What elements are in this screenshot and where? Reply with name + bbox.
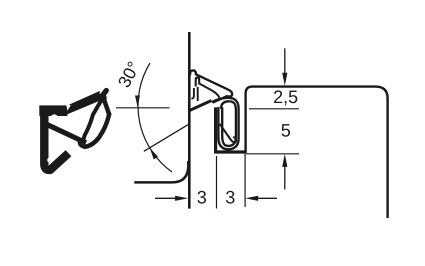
notch in top block of S1 bbox=[66, 105, 71, 111]
channel line and curl of S2 bbox=[191, 88, 194, 98]
label 5 bbox=[281, 124, 290, 137]
dimension arrow down (2.5) bbox=[282, 48, 287, 86]
dimension arrow left (3 right) bbox=[245, 196, 277, 201]
bulb outer wall of S1 bbox=[85, 114, 110, 147]
bulb hook curl of S1 bbox=[79, 140, 84, 147]
tongue of S2 bbox=[220, 124, 236, 142]
arc arrowhead upper bbox=[135, 96, 140, 108]
clip finger of S2 bbox=[196, 78, 200, 87]
extension line at 5 level bbox=[246, 153, 299, 155]
strut of S2 (wall to bulb) bbox=[190, 101, 212, 111]
rounded void end in S1 bbox=[47, 158, 51, 162]
bulb inner of S2 bbox=[221, 101, 236, 146]
arm lower edge of S2 bbox=[199, 84, 220, 100]
dimension arrow right (3 left) bbox=[155, 196, 188, 201]
diagonal reference line (30 deg) bbox=[144, 125, 188, 152]
arc arrowhead lower bbox=[150, 148, 158, 160]
horizontal reference line bbox=[116, 107, 170, 109]
label 3 (left) bbox=[197, 191, 206, 204]
bulb inner wall of S1 bbox=[83, 103, 100, 141]
lower diagonal strut of S1 bbox=[47, 125, 86, 143]
dimension: 30 deg arc bbox=[138, 63, 172, 172]
seal profile S1 (free state, solid black) bbox=[40, 91, 110, 170]
label 2,5 bbox=[274, 90, 297, 105]
frame wall vertical line bbox=[188, 32, 191, 209]
label 30deg bbox=[117, 61, 140, 89]
barb of S1 bbox=[105, 101, 110, 114]
stem and foot of S1 bbox=[44, 107, 68, 170]
arm upper edge of S2 bbox=[196, 74, 232, 102]
extension line below panel edge bbox=[244, 154, 246, 208]
tip spike of S1 bbox=[101, 91, 106, 98]
frame bottom flange with rounded corner bbox=[134, 161, 188, 182]
bulb outer of S2 bbox=[212, 98, 239, 150]
knob tip of S1 bbox=[97, 93, 107, 103]
rounded triangle-void end in S1 bbox=[50, 114, 58, 122]
groove pocket left wall bbox=[214, 107, 217, 152]
extension line below pocket wall bbox=[216, 156, 218, 209]
groove pocket bottom bbox=[214, 150, 246, 153]
label 3 (right) bbox=[226, 191, 235, 204]
seal profile S2 (installed, outline) bbox=[190, 70, 239, 149]
arm of S1 bbox=[67, 92, 100, 114]
top block of S1 bbox=[40, 106, 67, 116]
panel (rounded rectangle) bbox=[246, 87, 388, 218]
channel right line of S2 bbox=[197, 87, 199, 101]
stem bump of S2 bbox=[190, 70, 196, 75]
dimension arrow up (5) bbox=[282, 154, 287, 190]
extension line at 2.5 level bbox=[249, 108, 299, 110]
